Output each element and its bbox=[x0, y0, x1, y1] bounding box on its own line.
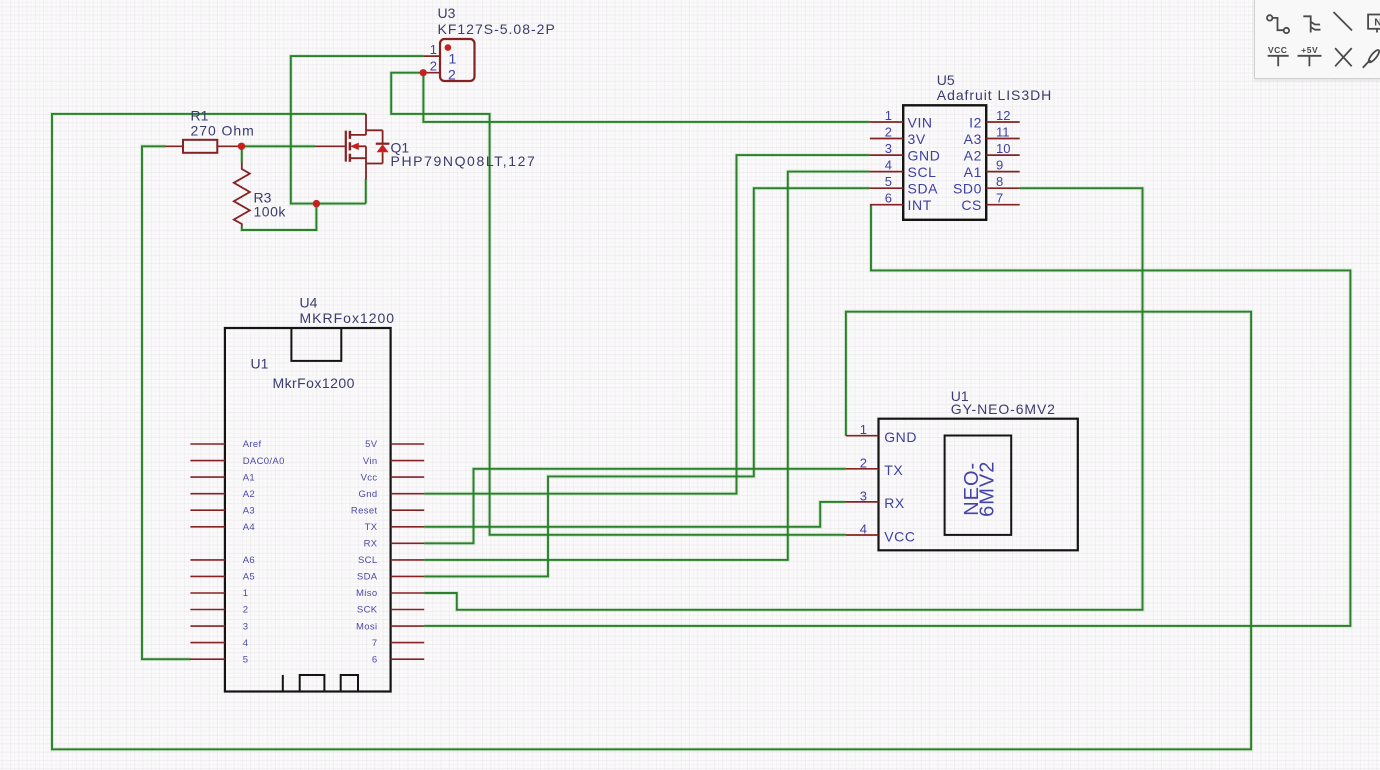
svg-text:DAC0/A0: DAC0/A0 bbox=[243, 456, 285, 467]
svg-text:6: 6 bbox=[885, 191, 892, 206]
svg-text:A2: A2 bbox=[243, 489, 255, 500]
svg-text:SDA: SDA bbox=[908, 181, 939, 197]
svg-text:SCL: SCL bbox=[358, 555, 378, 566]
svg-text:Miso: Miso bbox=[356, 588, 377, 599]
svg-text:4: 4 bbox=[885, 157, 892, 172]
svg-text:6: 6 bbox=[372, 654, 378, 665]
svg-text:2: 2 bbox=[860, 455, 867, 470]
svg-text:Aref: Aref bbox=[243, 439, 262, 450]
svg-text:10: 10 bbox=[996, 141, 1010, 156]
svg-text:CS: CS bbox=[961, 197, 982, 213]
svg-text:12: 12 bbox=[996, 108, 1010, 123]
svg-text:3: 3 bbox=[860, 488, 867, 503]
svg-text:270 Ohm: 270 Ohm bbox=[191, 123, 255, 139]
svg-text:A1: A1 bbox=[964, 164, 982, 180]
svg-text:MKRFox1200: MKRFox1200 bbox=[300, 310, 396, 326]
svg-text:Adafruit LIS3DH: Adafruit LIS3DH bbox=[937, 87, 1052, 103]
svg-text:3V: 3V bbox=[908, 131, 926, 147]
svg-text:1: 1 bbox=[449, 51, 457, 67]
svg-text:2: 2 bbox=[885, 124, 892, 139]
svg-text:SD0: SD0 bbox=[953, 181, 982, 197]
svg-text:11: 11 bbox=[996, 124, 1010, 139]
svg-text:A1: A1 bbox=[243, 472, 255, 483]
svg-text:2: 2 bbox=[243, 605, 249, 616]
svg-text:A4: A4 bbox=[243, 522, 255, 533]
svg-text:1: 1 bbox=[430, 42, 437, 57]
svg-text:GY-NEO-6MV2: GY-NEO-6MV2 bbox=[951, 401, 1056, 417]
svg-text:6MV2: 6MV2 bbox=[976, 461, 998, 517]
svg-text:U1: U1 bbox=[251, 356, 269, 372]
svg-text:1: 1 bbox=[860, 422, 867, 437]
svg-text:TX: TX bbox=[365, 522, 378, 533]
svg-text:Reset: Reset bbox=[351, 505, 378, 516]
svg-text:TX: TX bbox=[884, 462, 903, 478]
svg-text:A3: A3 bbox=[243, 505, 255, 516]
svg-text:7: 7 bbox=[996, 191, 1003, 206]
svg-text:Vin: Vin bbox=[363, 456, 378, 467]
svg-text:GND: GND bbox=[908, 147, 941, 163]
svg-text:Vcc: Vcc bbox=[361, 472, 378, 483]
svg-text:VIN: VIN bbox=[908, 114, 933, 130]
svg-text:2: 2 bbox=[430, 59, 437, 74]
svg-text:5V: 5V bbox=[365, 439, 378, 450]
svg-text:7: 7 bbox=[372, 638, 378, 649]
svg-text:U4: U4 bbox=[300, 295, 318, 311]
svg-text:A2: A2 bbox=[964, 147, 982, 163]
svg-text:8: 8 bbox=[996, 174, 1003, 189]
svg-text:5: 5 bbox=[243, 654, 249, 665]
svg-text:U3: U3 bbox=[438, 5, 456, 21]
svg-text:VCC: VCC bbox=[884, 528, 915, 544]
svg-text:SCK: SCK bbox=[357, 605, 378, 616]
svg-text:9: 9 bbox=[996, 157, 1003, 172]
svg-text:4: 4 bbox=[243, 638, 249, 649]
svg-text:MkrFox1200: MkrFox1200 bbox=[273, 375, 355, 391]
svg-text:A6: A6 bbox=[243, 555, 255, 566]
svg-text:2: 2 bbox=[448, 67, 456, 83]
svg-text:I2: I2 bbox=[969, 114, 982, 130]
svg-text:3: 3 bbox=[243, 621, 249, 632]
svg-text:U5: U5 bbox=[937, 72, 955, 88]
svg-text:PHP79NQ08LT,127: PHP79NQ08LT,127 bbox=[391, 153, 537, 169]
svg-text:RX: RX bbox=[364, 539, 378, 550]
svg-text:A3: A3 bbox=[964, 131, 982, 147]
svg-text:GND: GND bbox=[884, 429, 917, 445]
svg-text:R1: R1 bbox=[191, 108, 209, 124]
svg-text:1: 1 bbox=[243, 588, 249, 599]
svg-text:+5V: +5V bbox=[1301, 45, 1318, 55]
svg-text:SCL: SCL bbox=[908, 164, 937, 180]
svg-text:Mosi: Mosi bbox=[356, 621, 377, 632]
svg-text:5: 5 bbox=[885, 174, 892, 189]
svg-text:100k: 100k bbox=[254, 204, 287, 220]
svg-text:RX: RX bbox=[884, 495, 905, 511]
svg-text:3: 3 bbox=[885, 141, 892, 156]
svg-text:INT: INT bbox=[908, 197, 932, 213]
svg-text:VCC: VCC bbox=[1268, 45, 1287, 55]
svg-text:4: 4 bbox=[860, 522, 867, 537]
svg-text:Gnd: Gnd bbox=[358, 489, 377, 500]
svg-text:1: 1 bbox=[885, 108, 892, 123]
svg-text:A5: A5 bbox=[243, 572, 255, 583]
svg-text:N: N bbox=[1374, 17, 1380, 29]
svg-text:SDA: SDA bbox=[357, 572, 378, 583]
svg-text:KF127S-5.08-2P: KF127S-5.08-2P bbox=[438, 21, 556, 37]
